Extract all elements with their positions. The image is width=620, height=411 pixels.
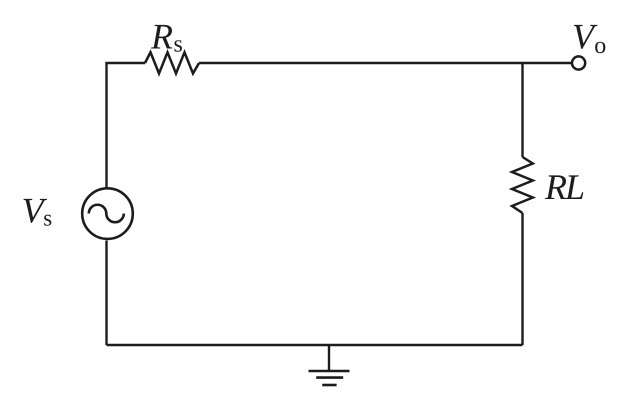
wire top (Rs to output terminal, junction at node Vo) [199,62,572,64]
wire right rail upper (node Vo junction down to RL) [521,63,523,157]
wire left rail lower (source to bottom rail) [105,241,107,346]
terminal Vo (open circle) [572,56,585,69]
svg-text:RL: RL [544,167,584,207]
resistor RL [512,157,533,213]
wire bottom rail [107,344,523,346]
ground [309,345,350,385]
source Vs (AC source circle with sine) [82,188,133,239]
svg-text:s: s [174,32,183,58]
wire top-left (left rail upper segment + top rail to Rs) [107,63,146,188]
svg-text:R: R [150,17,173,57]
svg-text:o: o [594,33,606,59]
svg-text:s: s [43,206,52,231]
wire right rail lower (RL to bottom rail) [521,213,523,345]
resistor Rs [145,52,199,73]
